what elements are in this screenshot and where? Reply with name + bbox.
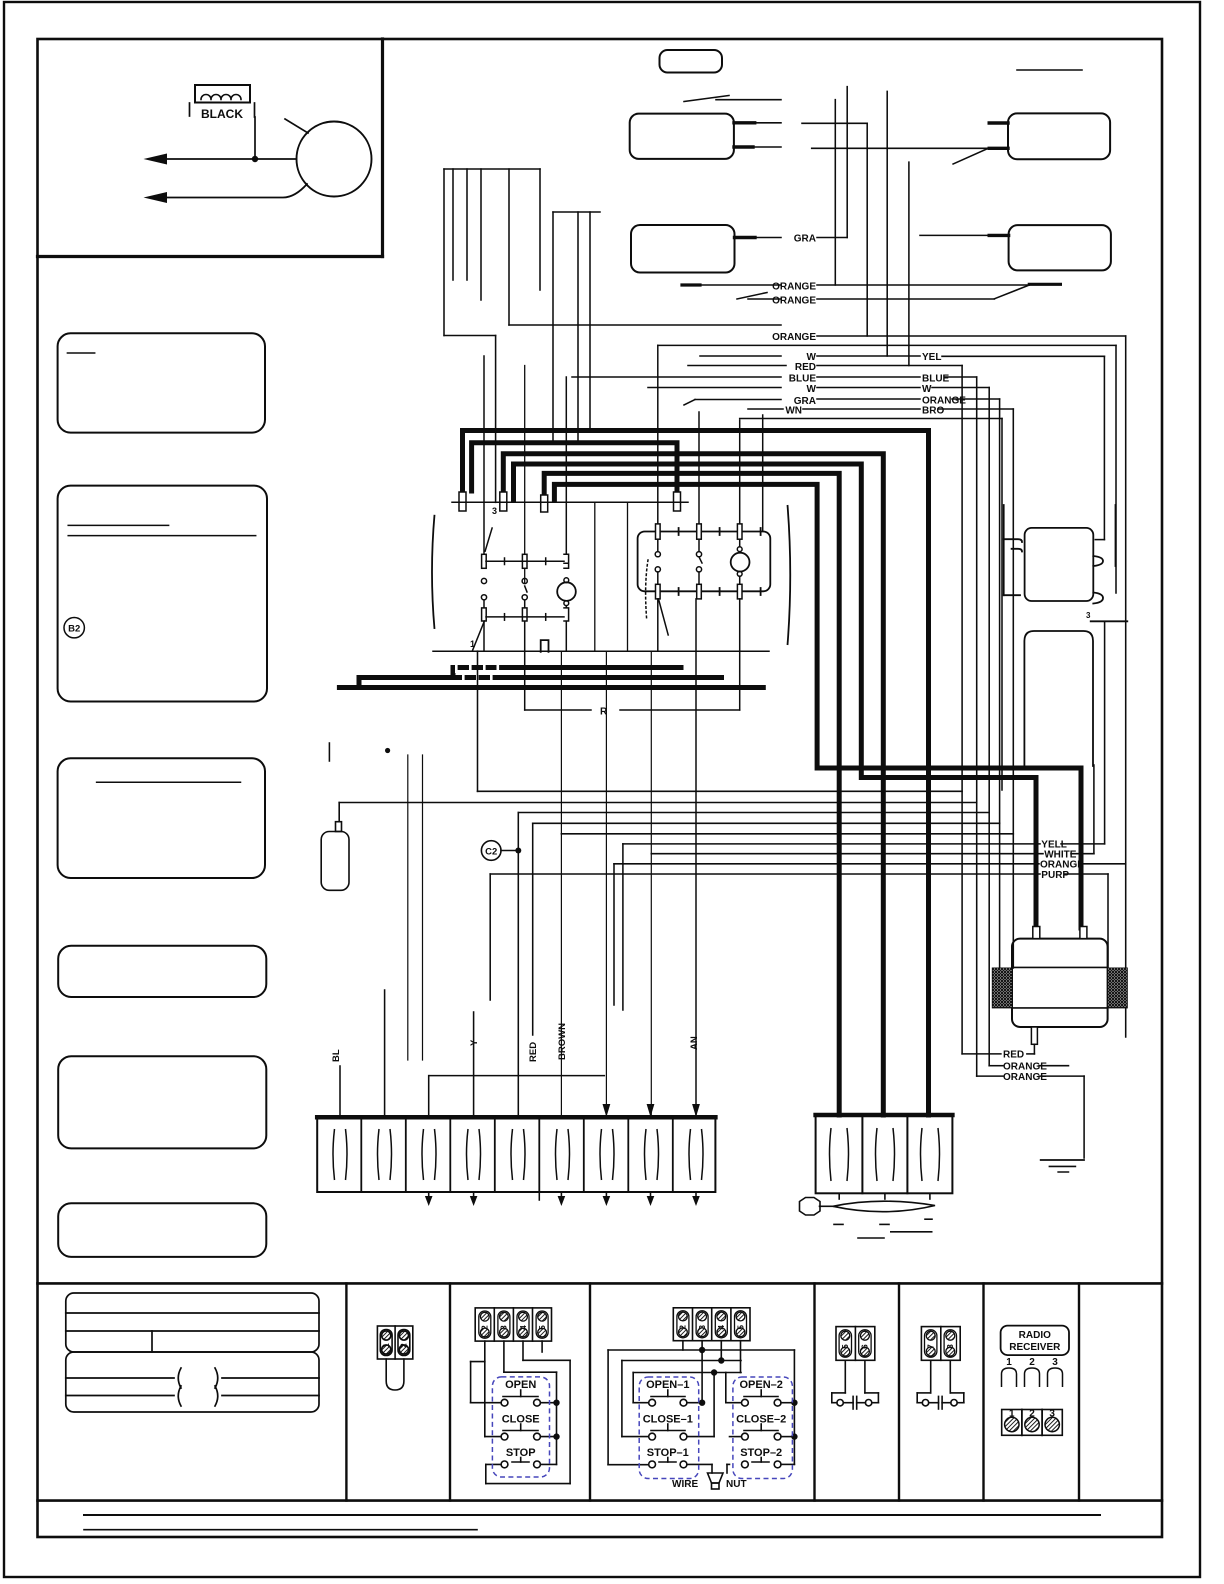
svg-text:CLOSE–1: CLOSE–1 bbox=[643, 1413, 693, 1425]
svg-text:RED: RED bbox=[795, 362, 816, 373]
svg-text:2: 2 bbox=[1029, 1357, 1035, 1368]
svg-text:AN: AN bbox=[689, 1036, 700, 1050]
svg-text:YEL: YEL bbox=[922, 352, 941, 363]
svg-text:W: W bbox=[807, 384, 817, 395]
svg-text:1: 1 bbox=[470, 639, 475, 649]
svg-text:CLOSE–2: CLOSE–2 bbox=[736, 1413, 786, 1425]
svg-text:CLOSE: CLOSE bbox=[502, 1413, 540, 1425]
svg-text:4: 4 bbox=[717, 1325, 726, 1330]
svg-text:7: 7 bbox=[927, 1344, 936, 1349]
svg-text:BLUE: BLUE bbox=[789, 373, 817, 384]
svg-text:GRA: GRA bbox=[794, 234, 816, 245]
svg-text:RADIO: RADIO bbox=[1019, 1330, 1051, 1341]
svg-text:5: 5 bbox=[538, 1325, 547, 1330]
svg-text:ORANGE: ORANGE bbox=[772, 282, 816, 293]
svg-text:6: 6 bbox=[861, 1344, 870, 1349]
svg-text:Y: Y bbox=[469, 1039, 480, 1046]
svg-text:WIRE: WIRE bbox=[672, 1479, 698, 1490]
svg-text:2: 2 bbox=[400, 1343, 409, 1348]
svg-text:BRO: BRO bbox=[922, 405, 944, 416]
svg-text:OPEN–1: OPEN–1 bbox=[646, 1379, 689, 1391]
svg-text:4: 4 bbox=[519, 1325, 528, 1330]
svg-text:ORANGE: ORANGE bbox=[772, 296, 816, 307]
svg-text:BLACK: BLACK bbox=[201, 107, 243, 121]
svg-text:C2: C2 bbox=[485, 846, 497, 857]
svg-text:ORANGE: ORANGE bbox=[1003, 1062, 1047, 1073]
svg-text:RECEIVER: RECEIVER bbox=[1009, 1342, 1061, 1353]
svg-text:NUT: NUT bbox=[726, 1479, 747, 1490]
svg-text:3: 3 bbox=[1049, 1409, 1055, 1420]
svg-text:3: 3 bbox=[492, 506, 497, 516]
svg-text:1: 1 bbox=[1009, 1409, 1015, 1420]
svg-text:1: 1 bbox=[1006, 1357, 1012, 1368]
svg-text:BROWN: BROWN bbox=[557, 1023, 568, 1060]
svg-text:8: 8 bbox=[946, 1344, 955, 1349]
svg-text:2: 2 bbox=[679, 1325, 688, 1330]
svg-text:3: 3 bbox=[698, 1325, 707, 1330]
svg-text:3: 3 bbox=[500, 1325, 509, 1330]
svg-text:1: 1 bbox=[382, 1343, 391, 1348]
svg-text:2: 2 bbox=[481, 1325, 490, 1330]
svg-text:ORANGE: ORANGE bbox=[772, 332, 816, 343]
svg-text:ORANGE: ORANGE bbox=[1003, 1072, 1047, 1083]
svg-text:B2: B2 bbox=[68, 624, 80, 635]
svg-text:2: 2 bbox=[1029, 1409, 1035, 1420]
svg-text:STOP: STOP bbox=[506, 1447, 536, 1459]
svg-text:3: 3 bbox=[1052, 1357, 1058, 1368]
svg-text:W: W bbox=[922, 384, 932, 395]
svg-text:5: 5 bbox=[736, 1325, 745, 1330]
svg-text:5: 5 bbox=[841, 1344, 850, 1349]
svg-text:STOP–1: STOP–1 bbox=[647, 1447, 689, 1459]
svg-text:BL: BL bbox=[331, 1049, 342, 1062]
svg-text:STOP–2: STOP–2 bbox=[740, 1447, 782, 1459]
svg-text:WN: WN bbox=[785, 405, 802, 416]
svg-text:3: 3 bbox=[1086, 611, 1091, 620]
svg-text:RED: RED bbox=[528, 1042, 539, 1062]
svg-text:PURP: PURP bbox=[1041, 870, 1069, 881]
svg-text:RED: RED bbox=[1003, 1050, 1024, 1061]
svg-text:OPEN–2: OPEN–2 bbox=[739, 1379, 782, 1391]
svg-text:OPEN: OPEN bbox=[505, 1379, 536, 1391]
